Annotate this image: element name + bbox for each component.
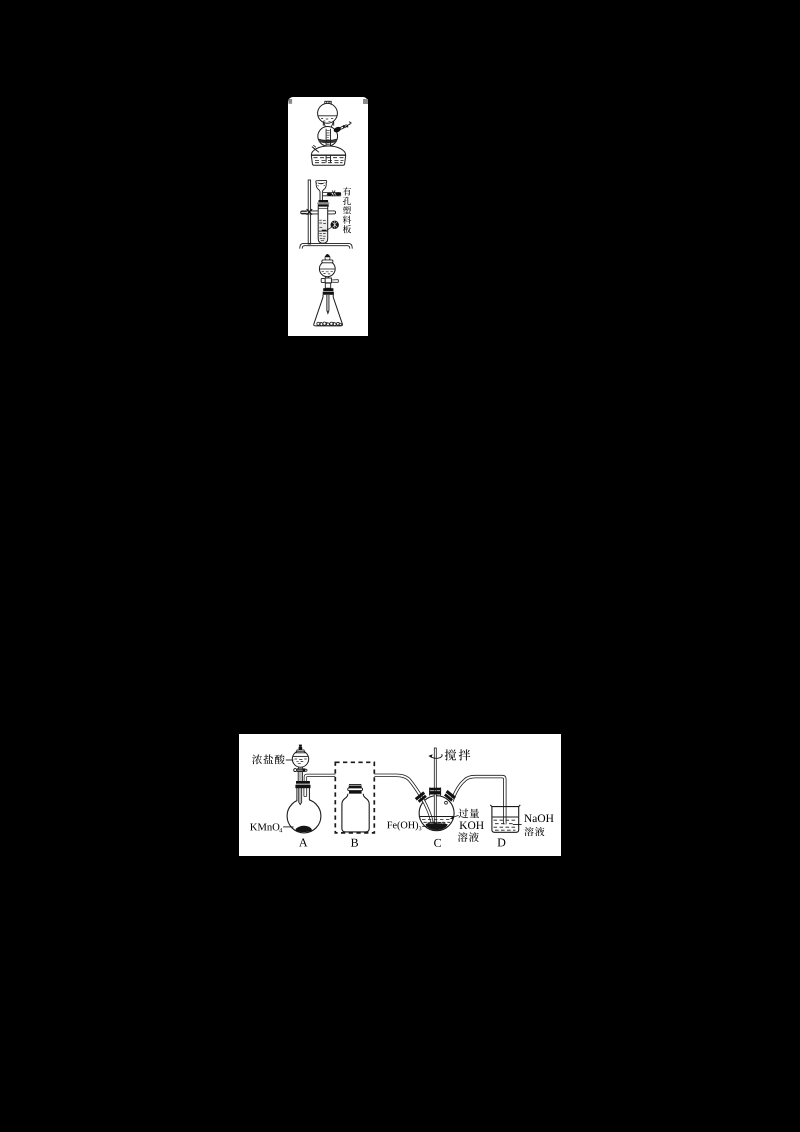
label 过量	[459, 809, 469, 818]
stopper (app3)	[323, 288, 333, 291]
thistle funnel cup	[316, 180, 327, 200]
glyph path definitions	[0, 0, 1, 1]
test tube stopper	[318, 200, 328, 202]
letter C	[434, 839, 441, 847]
funnel side arm	[323, 193, 341, 196]
funnel cap trapezoid A	[296, 750, 305, 753]
perforated plate solid	[322, 230, 327, 231]
kipp basin liquid line	[311, 154, 345, 156]
flask A body	[287, 799, 321, 833]
stir rod	[434, 748, 436, 823]
kipp basin dome	[311, 146, 345, 155]
tube C outlet	[452, 777, 505, 825]
kipp basin bowl	[311, 155, 345, 165]
label 溶液 (KOH)	[458, 832, 468, 842]
stopper C left neck	[415, 791, 428, 803]
kipp spout	[312, 145, 319, 152]
tube A to B	[305, 775, 335, 782]
tube liquid dashes	[319, 220, 326, 241]
inner tube (app3)	[327, 295, 329, 314]
kipp middle sphere	[318, 126, 338, 146]
kipp stopcock body blob	[333, 126, 342, 134]
tube B to C	[374, 775, 432, 823]
stand rod	[308, 180, 310, 244]
sediment C	[426, 823, 448, 830]
letter D	[498, 839, 506, 847]
corner artifact right	[363, 99, 368, 104]
kipp neck walls	[323, 121, 333, 125]
dropping funnel sphere A	[292, 751, 308, 767]
liquid C dashes	[422, 819, 450, 822]
clamp bar	[301, 211, 336, 214]
label 溶液 (NaOH)	[524, 827, 533, 836]
bottle B body	[342, 794, 369, 832]
label leader 浓盐酸	[286, 759, 294, 761]
neck below sphere A	[298, 767, 302, 769]
kipp top sphere	[318, 103, 338, 123]
dashed box B	[335, 762, 374, 833]
bottle B cap	[349, 784, 362, 788]
outlet stub in neck	[304, 788, 307, 797]
figure panel 1	[288, 97, 368, 336]
corner artifact left	[289, 99, 293, 104]
letter A	[299, 838, 307, 846]
stopcock A	[294, 769, 297, 772]
erlenmeyer flask	[314, 295, 343, 326]
dropping funnel cap	[322, 260, 333, 263]
KMnO4 solid	[296, 826, 312, 832]
liquid C surface line	[420, 816, 454, 818]
plate leader dot	[331, 221, 339, 229]
label KMnO4	[250, 823, 257, 830]
kipp funnel cone	[324, 122, 334, 129]
funnel knob A	[299, 745, 302, 747]
kipp side arm tube	[335, 125, 348, 132]
KOH label arrow	[452, 815, 459, 817]
side arm valve	[327, 193, 332, 196]
kipp top sphere liquid line	[318, 115, 337, 117]
solid lumps	[317, 322, 342, 326]
dropping funnel knob (app3)	[325, 255, 331, 257]
funnel neck tube above stopper	[298, 772, 302, 781]
flask A neck	[297, 788, 309, 802]
label KOH	[460, 821, 468, 829]
dropping funnel sphere	[319, 261, 335, 277]
label 浓盐酸	[252, 754, 262, 764]
beaker D	[490, 805, 520, 832]
flask C body	[419, 796, 454, 831]
stopper C center	[430, 788, 440, 791]
clamp bolt	[301, 212, 307, 214]
KMnO4 leader	[283, 826, 294, 828]
letter B	[351, 839, 358, 847]
kipp middle sphere dark liquid	[318, 139, 337, 143]
kipp basin liquid dashes	[314, 158, 344, 163]
test tube	[318, 207, 328, 243]
NaOH leader	[513, 824, 522, 826]
label 有孔塑料板 (vertical)	[343, 187, 351, 195]
label 搅拌	[445, 749, 456, 760]
label NaOH	[524, 814, 532, 822]
rotation arrow	[431, 754, 442, 758]
funnel stem in neck	[299, 788, 302, 805]
tube inside C	[422, 798, 432, 823]
center neck C	[430, 788, 441, 796]
stopper A	[296, 781, 310, 784]
Fe(OH)3 leader	[422, 825, 427, 827]
kipp valve bowtie	[343, 125, 348, 129]
kipp valve handle	[348, 122, 352, 126]
stand base	[300, 243, 353, 248]
stopcock (app3)	[321, 278, 325, 282]
beaker liquid	[492, 816, 518, 818]
stem (app3)	[325, 283, 330, 288]
stopper C right neck	[443, 790, 456, 802]
label Fe(OH)3	[387, 822, 392, 829]
figure panel 2	[239, 734, 561, 856]
kipp thistle tube through spheres	[326, 129, 330, 163]
kipp generator top knob	[325, 101, 331, 104]
